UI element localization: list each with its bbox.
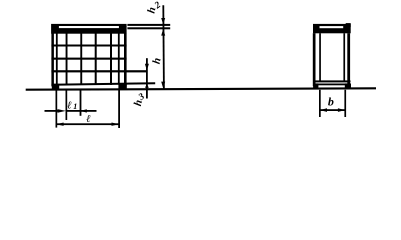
- left table: tabletop slab: [51, 24, 127, 34]
- right table: tabletop white inlay stripe: [320, 26, 344, 28]
- b extension line right: [344, 90, 346, 117]
- L1 extension line V3 below mesh vertical 2: [80, 90, 82, 116]
- left table: right foot: [118, 84, 126, 90]
- left table: tabletop white inlay stripe: [59, 26, 119, 28]
- right table: tabletop slab: [313, 24, 351, 33]
- left table: right leg: [124, 33, 127, 86]
- left table: mesh row 1: [51, 45, 126, 47]
- right table: left leg inner line: [319, 33, 321, 82]
- L1 extension line V2 below mesh vertical 1: [66, 90, 68, 120]
- right table: left leg: [313, 33, 316, 86]
- left table: left leg inner line: [56, 33, 58, 84]
- left table: left leg: [51, 33, 54, 86]
- L1 dimension line left tail with right-pointing arrow: [45, 110, 59, 112]
- L dimension line: [56, 123, 119, 125]
- right table: lower shelf lower line: [313, 84, 350, 86]
- right table: lower shelf upper line: [313, 80, 350, 82]
- right table: right foot: [345, 83, 351, 87]
- svg-text:ℓ: ℓ: [86, 114, 91, 125]
- L arrow pointing right at V4: [112, 123, 119, 126]
- label h3: [132, 99, 145, 107]
- b arrow pointing right: [338, 108, 345, 112]
- left table: mesh vertical 1: [66, 33, 68, 85]
- left table: mesh vertical 3: [95, 33, 97, 85]
- right table: right leg: [347, 33, 350, 86]
- b extension line left: [319, 90, 321, 117]
- left table: left foot: [52, 84, 59, 90]
- label h2: [145, 6, 158, 14]
- h2 extension line upper (tabletop top, extended): [127, 24, 170, 26]
- b arrow pointing left: [320, 108, 327, 112]
- h2 extension line lower (tabletop underside, extended): [127, 27, 170, 29]
- h2/h arrow pointing up at lower line: [161, 29, 165, 36]
- L arrow pointing left at V1: [56, 123, 63, 126]
- left table: mesh row 2: [51, 58, 126, 60]
- right table: left foot: [313, 83, 318, 87]
- L extension line V1 below left leg: [56, 90, 58, 128]
- h3 arrow pointing up at bottom shelf line: [145, 84, 149, 88]
- right table: tabletop corner bump: [346, 23, 351, 27]
- ground line: [26, 87, 376, 90]
- left table: mesh row 3 extended right for h3: [51, 70, 146, 72]
- svg-text:b: b: [328, 95, 334, 109]
- L1 dimension line right tail with left-pointing arrow: [80, 109, 87, 112]
- b dimension line: [320, 109, 346, 111]
- L1 dimension line middle segment: [66, 110, 80, 112]
- label h: [151, 57, 164, 65]
- left table: right leg inner line: [118, 33, 120, 84]
- h2 arrow pointing down at upper line: [161, 18, 165, 25]
- h2/h dimension vertical line: [162, 5, 164, 88]
- left table: mesh vertical 2: [80, 33, 82, 85]
- left table: mesh vertical 4: [110, 33, 112, 85]
- h3 arrow pointing down at mesh row 3 line: [145, 64, 149, 71]
- right table: right leg inner line: [343, 33, 345, 82]
- L extension line V4 below right leg inner line: [118, 90, 120, 128]
- h arrow pointing down at ground: [161, 82, 165, 89]
- h3 dimension vertical line: [146, 58, 148, 98]
- left table: bottom shelf line extended right for h3: [51, 82, 155, 86]
